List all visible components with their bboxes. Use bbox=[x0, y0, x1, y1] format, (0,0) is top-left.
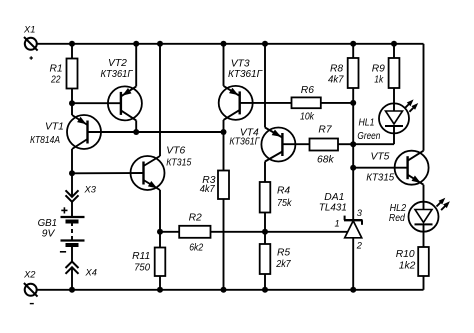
IC DA1 TL431 bbox=[344, 216, 346, 221]
svg-text:1: 1 bbox=[335, 218, 340, 228]
svg-text:X2: X2 bbox=[23, 269, 36, 279]
svg-text:VT2: VT2 bbox=[108, 58, 127, 69]
svg-text:X3: X3 bbox=[84, 185, 97, 195]
resistor R4 bbox=[260, 182, 271, 213]
transistor VT3 KT361G (PNP, base right, mirrored) bbox=[219, 86, 253, 120]
svg-text:КТ315: КТ315 bbox=[366, 173, 394, 184]
node top bus / VT6 collector bbox=[157, 41, 163, 47]
LED HL2 Red bbox=[423, 185, 425, 210]
node top bus / R8 bbox=[350, 41, 356, 47]
node bottom bus / R3 bbox=[221, 287, 227, 293]
svg-text:КТ315: КТ315 bbox=[166, 158, 191, 169]
transistor VT1 KT814A (PNP, base right) bbox=[67, 115, 101, 149]
resistor R2 bbox=[160, 231, 179, 233]
svg-text:4k7: 4k7 bbox=[328, 75, 345, 86]
svg-text:R11: R11 bbox=[132, 251, 150, 262]
wire VT6 base bbox=[72, 172, 144, 174]
svg-text:X4: X4 bbox=[85, 268, 97, 278]
connector X3 bbox=[71, 173, 73, 197]
svg-text:68k: 68k bbox=[317, 154, 334, 165]
node R7 / HL1 / DA1 column bbox=[350, 141, 356, 147]
svg-text:Green: Green bbox=[357, 131, 380, 142]
node R6 / R8 column bbox=[350, 100, 356, 106]
svg-text:75k: 75k bbox=[277, 198, 292, 209]
svg-text:9V: 9V bbox=[42, 228, 56, 239]
resistor R5 bbox=[264, 232, 266, 244]
svg-text:R1: R1 bbox=[50, 64, 63, 75]
node top bus / VT3 emitter bbox=[221, 41, 227, 47]
wire R8 column down bbox=[352, 103, 354, 220]
svg-text:R6: R6 bbox=[301, 85, 314, 96]
svg-text:VT1: VT1 bbox=[45, 122, 64, 133]
transistor VT6 KT315 (NPN, base left) bbox=[131, 156, 165, 190]
resistor R6 bbox=[292, 97, 321, 108]
node VT2 collector / VT1 base bbox=[133, 129, 139, 135]
resistor R11 bbox=[159, 232, 161, 248]
wire VT1 base line bbox=[88, 131, 224, 133]
resistor R1 bbox=[71, 44, 73, 59]
transistor VT4 KT361G (PNP, base right, mirrored) bbox=[261, 128, 295, 162]
svg-text:VT3: VT3 bbox=[231, 58, 250, 69]
node bottom bus / R11 bbox=[157, 287, 163, 293]
node R4/R5/R2 bbox=[262, 229, 268, 235]
svg-text:КТ814А: КТ814А bbox=[30, 135, 60, 146]
wire VT4 base to R7 bbox=[282, 143, 309, 145]
node VT6 emitter / R11 / R2 bbox=[157, 229, 163, 235]
wire R2 junction to DA1 pin 1 bbox=[265, 231, 348, 233]
svg-text:DA1: DA1 bbox=[324, 192, 344, 203]
svg-text:4k7: 4k7 bbox=[200, 184, 216, 195]
node VT1 collector / VT6 base bbox=[69, 170, 75, 176]
svg-text:Red: Red bbox=[389, 213, 405, 224]
transistor VT2 KT361G (PNP, base left) bbox=[108, 86, 142, 120]
svg-text:TL431: TL431 bbox=[319, 203, 347, 214]
svg-text:10k: 10k bbox=[300, 112, 315, 123]
svg-text:R2: R2 bbox=[189, 213, 202, 224]
svg-text:R4: R4 bbox=[277, 186, 290, 197]
svg-text:R5: R5 bbox=[277, 248, 290, 259]
terminal X2 bbox=[25, 284, 37, 296]
svg-text:3: 3 bbox=[357, 208, 363, 218]
svg-text:R8: R8 bbox=[330, 63, 343, 74]
node VT3 collector / R3 bbox=[221, 129, 227, 135]
svg-text:VT5: VT5 bbox=[371, 152, 390, 163]
svg-text:2k7: 2k7 bbox=[275, 259, 291, 270]
svg-text:КТ361Г: КТ361Г bbox=[229, 137, 260, 148]
svg-text:X1: X1 bbox=[23, 24, 35, 34]
LED HL1 Green bbox=[379, 103, 409, 133]
node top bus / VT4 emitter bbox=[262, 41, 268, 47]
resistor R7 bbox=[310, 139, 339, 151]
svg-text:R10: R10 bbox=[396, 249, 415, 260]
wire bottom bus bbox=[37, 289, 424, 291]
terminal X1 bbox=[25, 38, 37, 50]
svg-text:R7: R7 bbox=[318, 125, 332, 136]
resistor R8 bbox=[352, 44, 354, 58]
wire top bus bbox=[37, 43, 424, 45]
node top bus / VT2 emitter bbox=[133, 41, 139, 47]
svg-text:22: 22 bbox=[50, 75, 61, 86]
node top bus / R9 bbox=[391, 41, 397, 47]
node HL1 wire / VT5 base column bbox=[350, 165, 356, 171]
wire VT3 base to R6 bbox=[240, 102, 292, 104]
wire VT2 base bbox=[72, 102, 121, 104]
connector X4 bbox=[71, 246, 73, 262]
svg-text:HL1: HL1 bbox=[359, 117, 375, 128]
resistor R3 bbox=[223, 132, 225, 171]
svg-text:2: 2 bbox=[356, 240, 363, 250]
battery GB1 9V bbox=[61, 209, 67, 211]
svg-text:КТ361Г: КТ361Г bbox=[228, 69, 263, 80]
svg-text:1k: 1k bbox=[374, 75, 384, 86]
svg-text:1k2: 1k2 bbox=[399, 261, 416, 272]
svg-text:6k2: 6k2 bbox=[189, 243, 203, 254]
resistor R9 bbox=[393, 44, 395, 58]
svg-text:КТ361Г: КТ361Г bbox=[101, 69, 134, 80]
resistor R10 bbox=[418, 247, 429, 276]
svg-text:R9: R9 bbox=[372, 63, 385, 74]
svg-text:750: 750 bbox=[134, 262, 150, 273]
svg-text:VT6: VT6 bbox=[166, 146, 185, 157]
node R1/VT1/VT2 bbox=[69, 100, 75, 106]
wire right column (VT5 collector feed) bbox=[423, 44, 425, 151]
node bottom bus / X4 bbox=[69, 287, 75, 293]
node bottom bus / DA1 bbox=[350, 287, 356, 293]
transistor VT5 KT315 (NPN, base left) bbox=[395, 151, 429, 185]
wire VT5 base bbox=[353, 167, 407, 169]
node top bus / R1 bbox=[69, 41, 75, 47]
node bottom bus / R5 bbox=[262, 287, 268, 293]
